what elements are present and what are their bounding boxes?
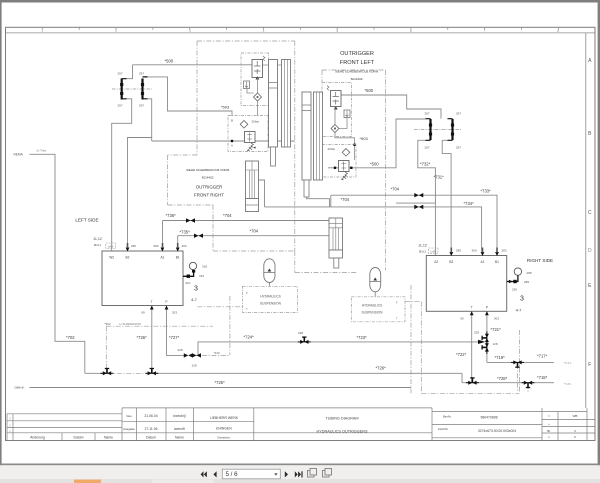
hose coupling *722 — [466, 378, 479, 385]
svg-text:Name: Name — [104, 435, 113, 439]
right block hose numbers — [456, 249, 507, 321]
FR cylinder 1 rod — [271, 147, 276, 166]
toolbar: page combo box — [222, 469, 280, 479]
port arrows right block top — [449, 252, 499, 256]
left small port box 1xM6 — [106, 243, 116, 249]
wire coupling2 top to valve B — [148, 77, 233, 116]
svg-text:A: A — [231, 144, 233, 148]
wire *731 — [442, 140, 451, 255]
FR cartridge solid arrow — [256, 76, 260, 79]
frame top band inner line — [6, 32, 596, 34]
wire FL cyl rod link — [307, 197, 330, 207]
svg-text:280: 280 — [131, 244, 136, 248]
toolbar: first page button — [201, 471, 207, 477]
front-right group box top — [197, 40, 295, 42]
wire *724/*723 line — [198, 342, 484, 356]
wire *702/*725 bottom long line left solid — [85, 372, 108, 374]
FL small cylinder inner lines — [329, 218, 343, 250]
accumulator 2 triangle — [373, 278, 377, 281]
coupling 297 bar R2 stubs — [448, 119, 453, 141]
svg-text:69: 69 — [141, 311, 145, 315]
title block — [7, 408, 595, 440]
svg-text:8: 8 — [557, 29, 559, 33]
svg-text:lwero/fl: lwero/fl — [174, 427, 185, 431]
FR nodes on A line — [231, 140, 233, 142]
svg-text:4-7: 4-7 — [516, 308, 523, 313]
svg-text:*727*: *727* — [169, 335, 180, 340]
FR reducer valve body — [245, 132, 256, 143]
svg-text:*503: *503 — [221, 105, 230, 110]
coupling 297 bar L2 — [141, 79, 144, 100]
hose coupling T1 — [145, 369, 158, 376]
front-right group box left edge — [196, 41, 198, 155]
svg-text:F: F — [246, 291, 248, 295]
svg-text:20bar: 20bar — [252, 120, 260, 124]
FL small cylinder rod — [334, 258, 339, 268]
gauge left labels — [185, 265, 207, 286]
gauge right labels — [512, 271, 532, 292]
svg-text:T: T — [471, 306, 473, 310]
wire *733 line — [331, 195, 497, 251]
svg-text:B1: B1 — [495, 260, 499, 264]
window left edge strip — [0, 0, 2, 466]
FR cartridge spring — [263, 56, 265, 61]
wire *735 B1 riser — [177, 236, 179, 251]
front-left group box left stub — [321, 70, 323, 83]
svg-text:D: D — [588, 248, 592, 254]
accumulator 2 capsule — [370, 268, 381, 292]
svg-text:*704: *704 — [391, 187, 400, 192]
issue/name section grid — [122, 407, 432, 409]
svg-text:3: 3 — [520, 296, 524, 303]
svg-text:128: 128 — [192, 364, 197, 368]
svg-text:1: 1 — [41, 29, 43, 33]
svg-text:*733*: *733* — [481, 189, 492, 194]
svg-text:P: P — [486, 306, 488, 310]
svg-text:SUSPENSION: SUSPENSION — [362, 311, 384, 315]
hose coupling *718 — [522, 381, 535, 388]
wire bottom long line center — [152, 372, 463, 374]
svg-text:*726*: *726* — [376, 366, 387, 371]
wire *736 line — [163, 220, 330, 222]
svg-text:*723*: *723* — [357, 335, 368, 340]
svg-text:F: F — [396, 301, 398, 305]
P1 line dashed continuation — [202, 354, 230, 356]
left block hose numbers — [131, 244, 187, 315]
toolbar: next page button — [285, 471, 288, 477]
viewer bottom separator — [0, 464, 600, 466]
FL nodes on *500 lower — [334, 167, 336, 169]
svg-text:288: 288 — [527, 271, 532, 275]
svg-text:Bl.: Bl. — [547, 429, 551, 433]
svg-text:*500: *500 — [370, 161, 379, 166]
svg-text:B2: B2 — [449, 260, 453, 264]
FL pilot valve dashed box — [322, 83, 352, 137]
text OUTRIGGER FRONT RIGHT — [186, 168, 230, 198]
right small port box 1xM6 — [429, 248, 439, 254]
wire *500 front-left bottom — [328, 119, 426, 168]
staircase to suspension: horizontal — [213, 250, 295, 252]
svg-text:B2: B2 — [126, 256, 130, 260]
svg-text:297: 297 — [118, 72, 123, 76]
dash link block1 to suspension box1 — [197, 306, 242, 308]
svg-text:300: 300 — [181, 244, 186, 248]
accumulator 1 capsule — [264, 259, 275, 283]
svg-text:283: 283 — [153, 244, 158, 248]
wire accumulator2 stem — [374, 292, 376, 297]
FL cylinder 1 cap lines — [302, 105, 311, 111]
svg-text:303: 303 — [494, 317, 499, 321]
coupling 297 bar R1 stubs — [426, 119, 431, 141]
wire *732 — [418, 140, 436, 255]
wire bottom line drop — [461, 373, 463, 382]
svg-text:HYDRAULICS: HYDRAULICS — [260, 295, 281, 299]
viewer bottom strip — [0, 479, 600, 483]
svg-text:*718.1: *718.1 — [564, 382, 573, 386]
svg-text:A1: A1 — [160, 256, 164, 260]
staircase lower horizontal left part — [295, 272, 358, 274]
svg-text:*717*: *717* — [537, 354, 548, 359]
svg-text:*722*: *722* — [456, 352, 467, 357]
svg-text:*731*: *731* — [434, 175, 445, 180]
gauge right stem black — [507, 275, 518, 281]
right id section grid — [432, 411, 587, 413]
FR throttle dashed box — [228, 116, 268, 152]
svg-text:298: 298 — [298, 331, 303, 335]
wire T1 descender — [151, 306, 153, 373]
svg-text:8214402.: 8214402. — [351, 77, 364, 81]
FL cylinder 1 rod — [304, 180, 309, 197]
front-right group box axis right edge — [294, 41, 296, 251]
svg-text:=: = — [548, 414, 550, 418]
wire *736 A1 riser — [162, 221, 164, 252]
FL reducer valve body — [339, 161, 350, 172]
FL cartridge spring — [327, 86, 329, 91]
svg-text:SIEHE SCHEIBENKOLB.VORM.: SIEHE SCHEIBENKOLB.VORM. — [335, 70, 379, 74]
wire P1 jog across couplings — [191, 354, 199, 356]
right suspension box top link — [405, 301, 421, 303]
svg-text:EHINGEN: EHINGEN — [216, 427, 232, 431]
left block port labels — [109, 256, 180, 305]
frame row letters A-F — [588, 58, 592, 368]
dash below coupling 717 — [517, 364, 519, 392]
gauge left: circle — [189, 262, 196, 269]
svg-text:REMA: REMA — [14, 153, 24, 157]
FR cylinder 2 inner lines — [285, 60, 288, 148]
svg-text:OUTRIGGER: OUTRIGGER — [196, 185, 223, 190]
svg-text:*902: *902 — [105, 322, 112, 326]
coupling 297 bar R2 — [451, 119, 454, 140]
FR cylinder link wire — [263, 64, 282, 66]
FL cylinder tube 2 — [314, 92, 323, 180]
svg-text:5 / 6: 5 / 6 — [226, 471, 239, 478]
svg-text:280: 280 — [456, 249, 461, 253]
svg-text:*500: *500 — [365, 88, 374, 93]
svg-text:BezNr.: BezNr. — [443, 415, 452, 419]
svg-text:LI-SUSPENSION: LI-SUSPENSION — [120, 322, 142, 326]
suspension box 1 dashed — [243, 286, 298, 312]
svg-text:T: T — [151, 300, 153, 304]
svg-text:*725*: *725* — [215, 380, 226, 385]
svg-text:*503: *503 — [360, 136, 369, 141]
valve on *704 mid — [414, 205, 423, 209]
arrow into P2 node — [478, 340, 485, 344]
title block texts — [30, 414, 577, 440]
hose coupling *721 vertical pair — [482, 331, 489, 344]
svg-text:C: C — [588, 210, 592, 216]
svg-text:RIGHT SIDE: RIGHT SIDE — [527, 258, 553, 263]
wire *719/*717 line — [487, 361, 554, 363]
svg-text:319: 319 — [199, 274, 204, 278]
svg-text:*704: *704 — [341, 197, 350, 202]
viewer toolbar background — [0, 465, 600, 479]
gauge left node — [187, 275, 190, 278]
svg-text:980470808: 980470808 — [481, 416, 498, 420]
svg-text:27.11.06: 27.11.06 — [145, 427, 158, 431]
svg-text:*724*: *724* — [244, 335, 255, 340]
svg-text:300: 300 — [471, 249, 476, 253]
coupling 297 bar R1 — [429, 119, 432, 140]
svg-text:1xM6: 1xM6 — [430, 251, 437, 254]
gauge right node — [513, 280, 516, 283]
FR cylinder 1 cap lines — [269, 83, 278, 89]
window top edge bar — [0, 0, 600, 3]
wire REMA supply — [30, 154, 85, 373]
coupling pair right: axis dash — [414, 129, 462, 131]
staircase drop — [294, 251, 296, 273]
toolbar: snapshot icons — [308, 469, 332, 478]
svg-text:*704: *704 — [250, 229, 259, 234]
svg-text:1xM6: 1xM6 — [108, 246, 115, 249]
accumulator 1 triangle — [268, 269, 272, 272]
valve on *733 — [414, 193, 423, 197]
svg-text:*734*: *734* — [464, 201, 475, 206]
manifold block right — [426, 256, 506, 312]
FL small cylinder bottom box — [329, 250, 343, 258]
right suspension box outer left edge — [420, 302, 422, 394]
FR cartridge valve body — [252, 60, 263, 78]
left suspension feed vertical — [105, 326, 107, 373]
FR cartridge internals — [254, 61, 260, 74]
svg-text:297: 297 — [139, 72, 144, 76]
svg-text:*702: *702 — [66, 335, 75, 340]
svg-text:*726*: *726* — [137, 335, 148, 340]
right suspension box outer right edge — [518, 330, 520, 393]
svg-text:283: 283 — [501, 249, 506, 253]
wire T2 descender *722 — [471, 311, 473, 382]
revision section grid — [7, 413, 122, 415]
svg-text:W2: W2 — [109, 256, 114, 260]
wire P2 descender *721 — [486, 311, 488, 362]
wire *725 — [30, 387, 412, 389]
wire coupling1 top riser — [127, 65, 133, 79]
accumulator 2 divider — [370, 281, 381, 283]
front-left group axis vertical — [385, 70, 387, 271]
wire branch to B2 — [128, 138, 152, 252]
svg-text:*732*: *732* — [420, 162, 431, 167]
svg-text:Datum: Datum — [146, 435, 156, 439]
FR reducer arrow — [254, 147, 256, 149]
svg-text:ZeichNr.: ZeichNr. — [438, 427, 449, 431]
front-right group box left jog — [168, 154, 197, 156]
FL cartridge internals — [333, 92, 339, 105]
wire accumulator1 stem — [268, 283, 270, 287]
svg-text:*728*: *728* — [497, 376, 508, 381]
svg-text:3274x673.00.00.003x004: 3274x673.00.00.003x004 — [478, 429, 516, 433]
svg-text:4: 4 — [263, 29, 265, 33]
wire FR cyl step — [259, 180, 265, 207]
FR reducer spring below — [248, 143, 254, 151]
wire coupling2 bottom down — [148, 99, 152, 141]
svg-text:v.: v. — [548, 435, 550, 439]
taskbar orange segment — [74, 480, 101, 483]
svg-text:3: 3 — [194, 286, 198, 293]
wire P1 descender — [167, 306, 187, 356]
svg-text:297: 297 — [139, 104, 144, 108]
svg-text:WB: WB — [573, 414, 578, 418]
svg-text:+: + — [548, 422, 550, 426]
svg-text:FRONT LEFT: FRONT LEFT — [340, 60, 375, 66]
svg-text:*718*: *718* — [537, 375, 548, 380]
svg-text:Gezeichn.: Gezeichn. — [217, 435, 231, 439]
svg-text:289: 289 — [524, 280, 529, 284]
FL relief mini valve — [344, 110, 350, 118]
svg-text:8214402.: 8214402. — [202, 176, 215, 180]
FL cartridge valve body — [331, 91, 342, 107]
svg-text:6: 6 — [410, 29, 412, 33]
hose coupling *717 — [511, 360, 524, 367]
svg-text:236: 236 — [512, 288, 517, 292]
wire *704 mid line — [265, 207, 482, 252]
wire *500 front-left top — [341, 95, 441, 119]
svg-text:Neu: Neu — [126, 414, 132, 418]
suspension box 2 dashed — [351, 297, 405, 322]
svg-text:4-7: 4-7 — [191, 297, 198, 302]
gauge left stem black — [183, 270, 194, 277]
svg-text:SUSPENSION: SUSPENSION — [260, 302, 282, 306]
FL reducer spring below — [342, 172, 348, 180]
FR small cylinder bottom box — [246, 199, 259, 212]
valve on *736 — [186, 218, 195, 222]
right suspension region vertical — [410, 285, 412, 393]
port arrows right block bottom — [470, 311, 489, 315]
svg-text:*940: *940 — [214, 351, 221, 355]
svg-text:FRONT RIGHT: FRONT RIGHT — [194, 193, 224, 198]
svg-text:20bar: 20bar — [328, 147, 336, 151]
svg-text:OUTRIGGER: OUTRIGGER — [340, 51, 374, 57]
svg-text:21.06.04: 21.06.04 — [144, 414, 157, 418]
svg-text:5: 5 — [336, 29, 338, 33]
svg-text:B: B — [231, 119, 233, 123]
coupling pair left: axis dash — [112, 88, 152, 90]
gauge right arrow — [509, 280, 513, 283]
FR pilot valve dashed box — [241, 53, 269, 106]
text OUTRIGGER FRONT LEFT — [335, 51, 379, 81]
svg-text:Ø2x1: Ø2x1 — [419, 250, 427, 254]
front-right group box left lower edge — [167, 155, 169, 205]
right block port labels — [434, 260, 499, 310]
svg-text:LIEBHERR WERK: LIEBHERR WERK — [210, 416, 239, 420]
svg-text:T: T — [396, 317, 398, 321]
svg-text:228: 228 — [474, 331, 479, 335]
frame column numbers — [41, 29, 559, 33]
toolbar: prev page button — [213, 471, 216, 477]
FR relief mini valve — [244, 81, 250, 89]
svg-text:297: 297 — [425, 146, 430, 150]
port arrows left block bottom — [150, 306, 169, 310]
FR small cylinder body — [246, 161, 259, 199]
svg-text:Ø2x1: Ø2x1 — [94, 243, 102, 247]
svg-text:310: 310 — [185, 281, 190, 285]
svg-text:Ausgabe: Ausgabe — [123, 427, 135, 431]
svg-text:SIEHE SCHEIBENKOLB.VORM.: SIEHE SCHEIBENKOLB.VORM. — [186, 168, 230, 172]
window right edge strip — [598, 0, 600, 466]
svg-text:Name: Name — [175, 435, 184, 439]
svg-text:11,12: 11,12 — [93, 237, 102, 241]
wire *733/*704 jog stub — [330, 195, 332, 207]
svg-text:*704: *704 — [223, 213, 232, 218]
FR throttle check diamond — [240, 121, 248, 129]
wire *728/*718 line — [462, 382, 554, 384]
front-left group box top — [322, 69, 386, 71]
svg-text:7: 7 — [484, 29, 486, 33]
dash below coupling 718 — [527, 384, 529, 393]
valve on *735 — [194, 234, 203, 238]
FR cylinder tube 1 — [269, 60, 278, 148]
svg-text:2x Trkw.: 2x Trkw. — [37, 149, 48, 153]
gauge left tip — [192, 270, 195, 273]
gauge right: circle — [514, 268, 521, 275]
hose coupling bottom line left — [101, 369, 114, 376]
wire short link 203 — [396, 202, 435, 204]
FR cylinder tube 2 — [282, 60, 291, 148]
FR small cylinder bottom line — [246, 204, 259, 206]
svg-text:TUBING DIAGRAM: TUBING DIAGRAM — [325, 417, 358, 421]
svg-text:A1: A1 — [481, 260, 485, 264]
svg-text:*736*: *736* — [166, 213, 177, 218]
svg-text:11,12: 11,12 — [418, 244, 427, 248]
svg-text:297: 297 — [456, 112, 461, 116]
wire *500 upper-left — [133, 64, 253, 66]
right suspension box outer bottom — [421, 392, 519, 394]
svg-text:HYDRAULICS: HYDRAULICS — [362, 304, 383, 308]
coupling 297 bar L1 stubs — [122, 79, 127, 99]
FL check diamond — [331, 125, 339, 133]
FL throttle dashed box — [322, 145, 356, 178]
svg-text:318: 318 — [202, 265, 207, 269]
wire valve A line — [152, 140, 295, 142]
center suspension dash vertical — [229, 296, 231, 355]
port stems bold right block — [451, 248, 497, 253]
svg-text:*735*: *735* — [180, 230, 191, 235]
coupling 297 bar L2 stubs — [143, 77, 148, 99]
svg-text:HYDRAULICS OUTRIGGERS: HYDRAULICS OUTRIGGERS — [316, 430, 368, 434]
coupling labels 297 right — [425, 112, 462, 150]
port stems bold left block — [128, 243, 178, 248]
svg-text:*500: *500 — [165, 59, 174, 64]
frame right band inner line — [585, 33, 587, 408]
svg-text:T: T — [246, 307, 248, 311]
port arrows left block top — [126, 248, 180, 252]
hose coupling P1 pair — [184, 353, 193, 357]
left suspension feed horizontal — [106, 325, 213, 327]
wire coupling1 bottom to W2 — [112, 99, 132, 251]
svg-text:Datum: Datum — [74, 435, 84, 439]
FL small cylinder body — [329, 218, 343, 250]
coupling 297 bar L1 — [120, 79, 123, 100]
svg-text:bwech/jl: bwech/jl — [173, 414, 185, 418]
svg-text:297: 297 — [456, 146, 461, 150]
